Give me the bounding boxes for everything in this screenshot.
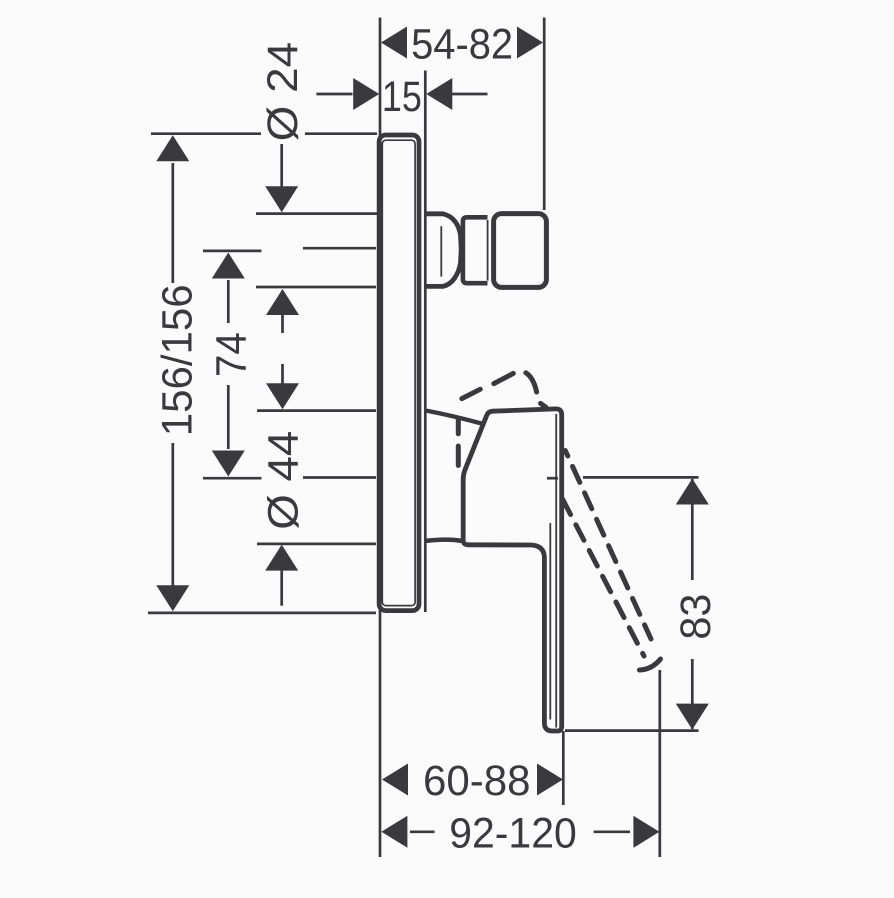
svg-text:92-120: 92-120 xyxy=(449,809,577,857)
svg-text:Ø 44: Ø 44 xyxy=(260,431,308,530)
svg-text:15: 15 xyxy=(382,73,422,121)
svg-text:60-88: 60-88 xyxy=(423,757,531,805)
svg-text:Ø 24: Ø 24 xyxy=(259,42,307,142)
svg-text:74: 74 xyxy=(208,332,256,377)
svg-text:83: 83 xyxy=(672,594,720,640)
svg-text:54-82: 54-82 xyxy=(411,20,513,68)
svg-text:156/156: 156/156 xyxy=(154,284,202,436)
